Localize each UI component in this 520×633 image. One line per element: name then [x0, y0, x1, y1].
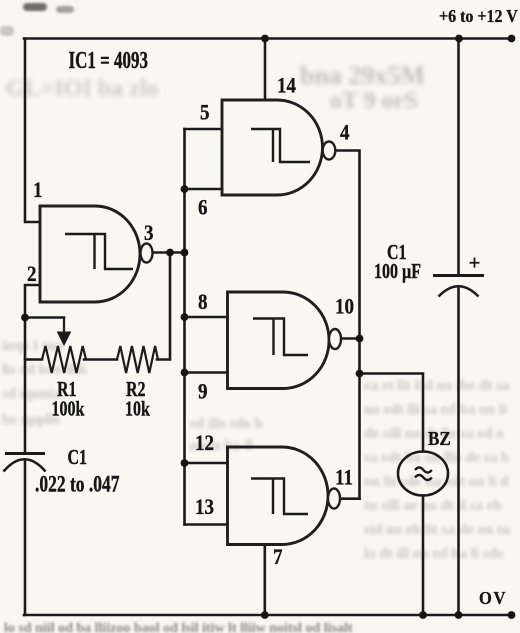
svg-text:tu sill ae no dt il sa eb: tu sill ae no dt il sa eb: [364, 498, 502, 514]
svg-text:lo sd niil od ba lliizoo baol: lo sd niil od ba lliizoo baol od lsil it…: [4, 621, 353, 633]
svg-text:no edt lli sa ed ba on li: no edt lli sa ed ba on li: [364, 402, 507, 418]
svg-text:sid no eb lit sa de on tu: sid no eb lit sa de on tu: [364, 522, 510, 538]
svg-text:7: 7: [273, 546, 283, 569]
svg-text:4: 4: [340, 121, 350, 144]
svg-text:10k: 10k: [125, 398, 150, 422]
svg-text:2: 2: [27, 263, 37, 286]
svg-text:oT 9 orS: oT 9 orS: [330, 88, 418, 114]
svg-text:on lit sde ba edt on li d: on lit sde ba edt on li d: [364, 474, 509, 490]
svg-text:12: 12: [195, 432, 214, 455]
svg-text:9: 9: [198, 380, 208, 403]
svg-text:sa edt ba on llit de sa b: sa edt ba on llit de sa b: [364, 450, 509, 466]
svg-text:V: V: [494, 588, 506, 608]
svg-text:5: 5: [200, 101, 210, 124]
svg-text:1: 1: [33, 179, 43, 202]
svg-text:C1: C1: [68, 446, 88, 470]
svg-text:la dt ill on ed ba li sde: la dt ill on ed ba li sde: [364, 546, 504, 562]
svg-text:100k: 100k: [52, 398, 85, 422]
svg-text:+6 to +12 V: +6 to +12 V: [439, 6, 518, 26]
svg-text:100 µF: 100 µF: [374, 260, 421, 284]
svg-text:ea rt lit Ed no ibe dt sa: ea rt lit Ed no ibe dt sa: [364, 378, 510, 394]
svg-text:11: 11: [335, 466, 353, 489]
svg-text:IC1 = 4093: IC1 = 4093: [69, 46, 149, 74]
svg-text:8: 8: [198, 291, 208, 314]
svg-text:iuqs I tua: iuqs I tua: [2, 338, 63, 354]
svg-text:13: 13: [195, 496, 214, 519]
svg-text:bna 29x5M: bna 29x5M: [300, 61, 425, 90]
svg-text:+: +: [469, 251, 481, 275]
svg-text:6: 6: [198, 196, 208, 219]
svg-text:.022 to .047: .022 to .047: [35, 471, 119, 497]
svg-text:O: O: [479, 588, 492, 608]
svg-text:3: 3: [144, 222, 154, 245]
svg-text:sd ilis tdo b: sd ilis tdo b: [190, 416, 263, 432]
svg-text:BZ: BZ: [428, 428, 451, 449]
svg-text:10: 10: [335, 295, 354, 318]
svg-text:14: 14: [277, 74, 296, 97]
svg-text:GL=IOI ba zlo: GL=IOI ba zlo: [6, 76, 158, 102]
